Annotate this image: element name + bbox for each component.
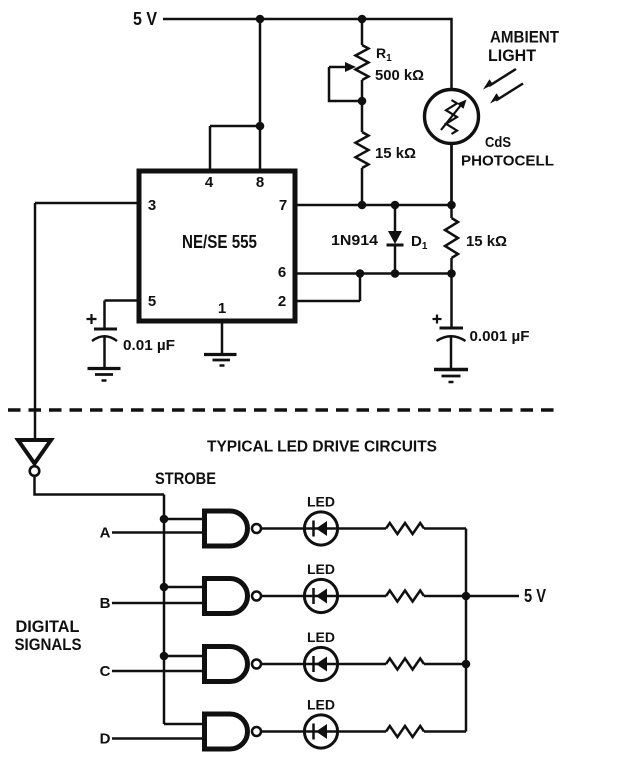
- svg-text:TYPICAL LED DRIVE CIRCUITS: TYPICAL LED DRIVE CIRCUITS: [207, 439, 437, 456]
- junction 555 supply drop: [256, 15, 265, 24]
- IC U1 NE/SE 555 body: [139, 171, 295, 321]
- capacitor C1 0.01uF: [87, 314, 118, 368]
- wire gate C output row: [261, 663, 386, 666]
- svg-text:D1: D1: [411, 233, 428, 252]
- svg-text:C: C: [100, 663, 111, 680]
- svg-text:4: 4: [205, 174, 214, 191]
- wire resistor A to bus: [424, 527, 466, 530]
- label AMBIENT LIGHT: [488, 28, 560, 66]
- junction pin6/right column: [447, 269, 456, 278]
- junction strobe C: [160, 652, 169, 661]
- junction pin6/pin2: [356, 269, 365, 278]
- capacitor C2 0.001uF: [433, 274, 466, 370]
- svg-text:7: 7: [279, 197, 287, 214]
- resistor row A: [386, 523, 424, 534]
- wire right 5V bus: [465, 529, 468, 732]
- label CdS PHOTOCELL: [461, 134, 554, 170]
- wire strobe input D: [164, 723, 204, 726]
- wire pin 1 stub: [221, 323, 224, 353]
- NAND gate D: [205, 714, 262, 749]
- wire gate A output row: [261, 527, 386, 530]
- NAND gate A: [205, 511, 262, 546]
- photocell CdS: [425, 90, 479, 206]
- svg-text:5: 5: [148, 293, 156, 310]
- svg-text:AMBIENT: AMBIENT: [490, 28, 560, 47]
- wire pin 3 to inverter: [35, 203, 137, 440]
- ground C2: [434, 370, 468, 383]
- LED C: [304, 647, 337, 680]
- svg-text:1N914: 1N914: [331, 232, 379, 249]
- wire 5V tap: [466, 595, 519, 598]
- ground C1: [88, 369, 121, 381]
- svg-text:15 kΩ: 15 kΩ: [466, 233, 507, 250]
- svg-text:6: 6: [278, 264, 286, 281]
- svg-text:SIGNALS: SIGNALS: [15, 635, 82, 654]
- diode D1 1N914: [387, 205, 404, 274]
- LED B: [304, 579, 337, 612]
- svg-text:LIGHT: LIGHT: [488, 46, 537, 65]
- wire 555 supply drop to pins 4 and 8: [210, 19, 260, 170]
- wire input C: [112, 670, 204, 673]
- LED D: [304, 715, 337, 748]
- svg-text:1: 1: [218, 300, 226, 317]
- wiper arrow R1: [329, 67, 362, 101]
- svg-text:A: A: [100, 525, 111, 542]
- junction pin7/15k left: [358, 201, 367, 210]
- wire pin 6 line: [296, 272, 452, 275]
- ambient light arrow 2: [490, 84, 523, 104]
- wire input B: [112, 602, 204, 605]
- resistor row B: [386, 591, 424, 602]
- wire resistor D to bus: [424, 730, 466, 733]
- svg-text:B: B: [100, 595, 111, 612]
- svg-text:15 kΩ: 15 kΩ: [375, 145, 416, 162]
- wire input D: [112, 737, 204, 740]
- wire strobe input B: [164, 586, 204, 589]
- wire gate D output row: [261, 730, 386, 733]
- resistor row D: [386, 726, 424, 737]
- wire pin 7 line: [296, 204, 452, 207]
- svg-text:LED: LED: [307, 561, 335, 577]
- junction strobe A: [160, 515, 169, 524]
- junction strobe B: [160, 583, 169, 592]
- wire resistor B to bus: [424, 595, 466, 598]
- ground pin 1: [204, 355, 237, 366]
- svg-text:2: 2: [278, 293, 286, 310]
- junction pin7/diode: [391, 201, 400, 210]
- wire strobe input C: [164, 655, 204, 658]
- junction pin6/diode: [391, 269, 400, 278]
- svg-text:CdS: CdS: [485, 134, 511, 151]
- svg-text:DIGITAL: DIGITAL: [16, 617, 80, 636]
- junction bus row C: [462, 660, 471, 669]
- resistor 15k left: [356, 101, 369, 205]
- svg-text:5 V: 5 V: [524, 586, 546, 606]
- svg-text:R1: R1: [376, 45, 392, 64]
- svg-text:0.001 µF: 0.001 µF: [470, 328, 530, 345]
- wire pin 5 to C1: [105, 301, 138, 330]
- junction R1 top: [358, 15, 367, 24]
- wire strobe input A: [164, 518, 204, 521]
- resistor row C: [386, 659, 424, 670]
- junction pin7/photocell column: [447, 201, 456, 210]
- svg-text:D: D: [100, 731, 111, 748]
- wire strobe bus: [163, 495, 166, 725]
- svg-text:0.01 µF: 0.01 µF: [123, 337, 175, 354]
- svg-text:3: 3: [148, 197, 156, 214]
- svg-text:STROBE: STROBE: [155, 469, 216, 488]
- svg-text:LED: LED: [307, 629, 335, 645]
- wire input A: [112, 531, 204, 534]
- NAND gate C: [205, 647, 262, 682]
- svg-text:5 V: 5 V: [133, 9, 157, 29]
- label DIGITAL SIGNALS: [15, 617, 82, 654]
- junction bus row B: [462, 592, 471, 601]
- svg-text:LED: LED: [307, 697, 335, 713]
- wire 5V rail: [163, 19, 452, 89]
- resistor 15k right: [445, 144, 458, 274]
- wire pin 2: [296, 274, 360, 302]
- svg-text:NE/SE 555: NE/SE 555: [182, 232, 257, 252]
- svg-text:8: 8: [256, 174, 264, 191]
- svg-text:PHOTOCELL: PHOTOCELL: [461, 153, 554, 170]
- svg-text:500 kΩ: 500 kΩ: [375, 67, 424, 84]
- NAND gate B: [205, 579, 262, 614]
- dashed separator line: [8, 408, 561, 411]
- potentiometer R1 500k: [356, 19, 369, 101]
- inverter U2: [18, 440, 51, 476]
- junction R1 wiper/bottom: [358, 97, 367, 106]
- LED A: [304, 512, 337, 545]
- ambient light arrow 1: [483, 69, 516, 90]
- junction pin 8 drop: [256, 122, 265, 131]
- svg-text:LED: LED: [307, 494, 335, 510]
- wire resistor C to bus: [424, 663, 466, 666]
- wire inverter output / strobe feed: [35, 476, 165, 495]
- wire gate B output row: [261, 595, 386, 598]
